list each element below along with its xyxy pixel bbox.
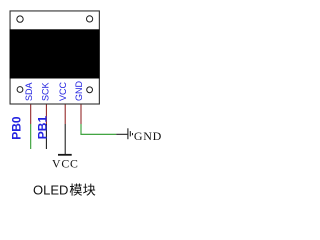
wire VCC lead (black segment) (64, 124, 66, 154)
svg-text:OLED: OLED (33, 182, 68, 197)
wire SDA net (green segment) (30, 124, 32, 149)
ground symbol bar 2 (129, 131, 131, 136)
pin 1 wire SDA (red segment) (30, 105, 32, 125)
pin 3 wire VCC (red segment) (64, 105, 66, 125)
caption 块 (83, 184, 95, 196)
OLED module screen (black area) (10, 29, 100, 78)
svg-text:SDA: SDA (24, 82, 34, 101)
ground symbol bar 1 (127, 128, 129, 139)
wire SCK net (black segment) (45, 124, 47, 149)
wire GND net horizontal (green) (80, 133, 116, 135)
svg-text:SCK: SCK (41, 82, 51, 101)
VCC power bar symbol (58, 154, 72, 156)
svg-text:VCC: VCC (52, 156, 79, 170)
OLED module U1 body (10, 11, 99, 104)
mounting hole bottom-right (87, 87, 93, 93)
pin 4 wire GND (red segment) (80, 105, 82, 125)
svg-text:VCC: VCC (58, 81, 68, 101)
GND symbol lead (black) (116, 133, 127, 135)
caption 模 (70, 184, 82, 196)
svg-text:PB0: PB0 (10, 116, 24, 140)
mounting hole top-right (87, 16, 93, 22)
wire GND net vertical (green) (80, 124, 82, 134)
svg-text:PB1: PB1 (36, 116, 50, 140)
mounting hole bottom-left (17, 87, 23, 93)
mounting hole top-left (17, 16, 23, 22)
svg-text:GND: GND (134, 129, 162, 143)
ground symbol bar 3 (132, 133, 134, 135)
svg-text:GND: GND (74, 81, 84, 102)
pin 2 wire SCK (red segment) (45, 105, 47, 125)
